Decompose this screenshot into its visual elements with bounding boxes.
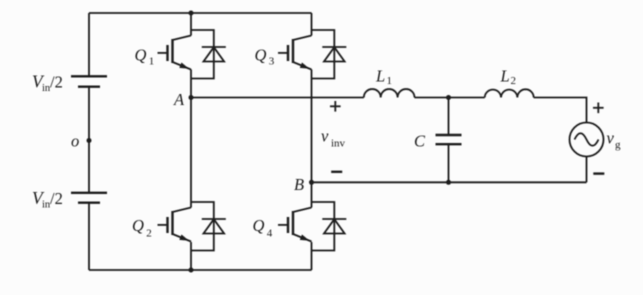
polarity + of v_inv bbox=[330, 101, 341, 112]
node o bbox=[87, 138, 92, 143]
svg-text:3: 3 bbox=[269, 55, 275, 67]
wire: left rail upper bbox=[88, 13, 90, 76]
inductor L2 bbox=[485, 89, 534, 97]
wire: left leg top segment bbox=[190, 13, 192, 36]
label Q3 bbox=[255, 45, 275, 67]
wire: left rail lower bbox=[88, 203, 90, 270]
svg-text:L: L bbox=[375, 67, 385, 86]
svg-text:v: v bbox=[607, 128, 615, 147]
wire: L1 to L2 (through capacitor tap) bbox=[415, 97, 485, 99]
svg-text:Q: Q bbox=[253, 216, 265, 235]
wire: L2 to grid source vg bbox=[534, 98, 587, 123]
battery Vin/2 lower: long plate bbox=[71, 192, 107, 194]
polarity - of v_inv bbox=[331, 171, 342, 173]
diode (anti-parallel with Q3) bbox=[312, 30, 347, 79]
battery Vin/2 upper: long plate bbox=[71, 75, 107, 77]
svg-text:B: B bbox=[294, 175, 304, 194]
label Q1 bbox=[135, 45, 155, 67]
inductor L1 bbox=[364, 89, 415, 97]
label L1 bbox=[375, 67, 392, 88]
junction: bottom bus / left leg bbox=[189, 268, 194, 273]
junction: capacitor bottom tap bbox=[446, 180, 451, 185]
wire: left leg middle segment (Q1 emitter to Q2 collector, through node A) bbox=[190, 70, 192, 208]
wire: bottom output rail (node B to vg) bbox=[312, 181, 587, 183]
wire: right leg bottom segment bbox=[311, 242, 313, 270]
svg-text:/2: /2 bbox=[50, 73, 63, 92]
svg-text:Q: Q bbox=[132, 216, 144, 235]
diode (anti-parallel with Q2) bbox=[191, 202, 226, 251]
label vg bbox=[607, 128, 622, 151]
svg-text:2: 2 bbox=[511, 75, 517, 87]
transistor Q1 (IGBT) bbox=[158, 36, 192, 70]
diode (anti-parallel with Q1) bbox=[191, 30, 226, 79]
battery Vin/2 upper: short plate bbox=[78, 85, 100, 87]
capacitor C bbox=[436, 98, 462, 183]
svg-text:2: 2 bbox=[146, 228, 152, 240]
svg-text:g: g bbox=[615, 139, 621, 151]
polarity + of vg bbox=[593, 103, 604, 114]
label Q4 bbox=[253, 216, 273, 240]
svg-text:C: C bbox=[414, 132, 426, 151]
svg-text:1: 1 bbox=[387, 75, 393, 87]
svg-text:Q: Q bbox=[255, 45, 267, 64]
svg-text:L: L bbox=[500, 67, 510, 86]
wire: right leg middle segment (Q3 emitter to Q4 collector, through node B) bbox=[311, 70, 313, 208]
junction: top bus / left leg bbox=[189, 11, 194, 16]
label Vin/2 lower bbox=[32, 188, 63, 211]
svg-text:4: 4 bbox=[267, 228, 273, 240]
svg-text:Q: Q bbox=[135, 45, 147, 64]
wire: node A to L1 bbox=[191, 97, 364, 99]
wire: left leg bottom segment bbox=[190, 242, 192, 270]
ac source vg bbox=[570, 123, 604, 157]
transistor Q4 (IGBT) bbox=[278, 208, 312, 242]
node B bbox=[309, 180, 314, 185]
transistor Q2 (IGBT) bbox=[158, 208, 192, 242]
label L2 bbox=[500, 67, 517, 88]
battery Vin/2 lower: short plate bbox=[78, 201, 100, 203]
wire: top DC bus bbox=[89, 12, 312, 14]
svg-text:o: o bbox=[71, 132, 79, 151]
junction: capacitor top tap bbox=[446, 95, 451, 100]
polarity - of vg bbox=[593, 172, 604, 174]
transistor Q3 (IGBT) bbox=[278, 36, 312, 70]
label Vin/2 upper bbox=[32, 72, 63, 94]
label v_inv bbox=[321, 126, 346, 149]
svg-text:/2: /2 bbox=[50, 189, 63, 208]
wire: bottom DC bus bbox=[89, 269, 312, 271]
svg-text:inv: inv bbox=[331, 137, 346, 149]
wire: vg bottom lead bbox=[586, 157, 588, 183]
node A bbox=[189, 95, 194, 100]
svg-text:v: v bbox=[321, 126, 329, 145]
wire: left rail middle bbox=[88, 87, 90, 193]
wire: right leg top segment bbox=[311, 13, 313, 36]
diode (anti-parallel with Q4) bbox=[312, 202, 347, 251]
label Q2 bbox=[132, 216, 152, 240]
svg-text:A: A bbox=[173, 90, 185, 109]
svg-text:1: 1 bbox=[149, 55, 155, 67]
